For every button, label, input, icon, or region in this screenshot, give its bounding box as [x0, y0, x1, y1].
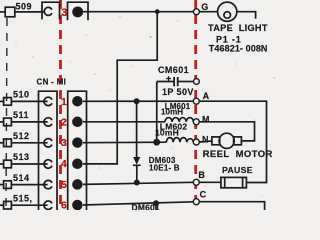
wire row 509 to node G [82, 11, 193, 13]
branch vertical with diode DM603 [136, 101, 138, 157]
node C [193, 199, 199, 205]
terminal square 515 [0, 204, 4, 206]
connector CN-M1 female box (long) [39, 91, 58, 210]
wire 509 square to connector [15, 11, 44, 13]
svg-text:3: 3 [61, 7, 67, 19]
svg-text:512: 512 [13, 131, 30, 141]
svg-text:CM601: CM601 [158, 65, 189, 75]
node B [193, 179, 199, 185]
node A [193, 98, 199, 104]
inductor LM601 coil [165, 118, 193, 122]
junction A row [134, 98, 140, 104]
red dashed boundary line 1 (x=60) [59, 0, 62, 210]
pause switch body [221, 177, 247, 187]
wire pin6 to node C [83, 202, 193, 205]
svg-text:1P 50V: 1P 50V [162, 87, 194, 97]
svg-text:REEL MOTOR: REEL MOTOR [203, 149, 273, 160]
diode DM603 [133, 157, 140, 165]
svg-text:10E1- B: 10E1- B [149, 163, 180, 172]
capacitor CM601 plates [173, 77, 175, 86]
junction N row [153, 139, 160, 146]
connector box (male half) row 509 [68, 2, 89, 20]
node M [193, 119, 199, 125]
svg-text:C: C [200, 190, 207, 200]
reel motor left terminal [212, 137, 220, 145]
reel motor body [219, 133, 234, 148]
junction C row [153, 200, 159, 206]
capacitor branch vertical [156, 82, 158, 143]
svg-text:509: 509 [16, 2, 33, 12]
male pin dots 1-6 [73, 97, 82, 106]
svg-text:514: 514 [13, 173, 30, 183]
svg-text:3: 3 [61, 137, 67, 149]
node N [193, 139, 199, 145]
svg-text:+: + [166, 74, 172, 85]
svg-text:B: B [198, 170, 205, 180]
reel motor right terminal [234, 137, 242, 145]
terminal square 511 [0, 121, 4, 123]
svg-text:A: A [203, 91, 210, 101]
svg-text:CN - MI: CN - MI [37, 78, 67, 87]
node cap (unlabeled) [194, 79, 200, 85]
svg-text:4: 4 [61, 158, 67, 170]
node G to lamp wire [199, 11, 217, 13]
paper background [0, 0, 280, 210]
svg-text:6: 6 [61, 199, 67, 210]
svg-text:M: M [202, 114, 210, 124]
svg-text:PAUSE: PAUSE [222, 165, 253, 175]
capacitor CM601 wiring [157, 81, 174, 83]
svg-text:DM601: DM601 [132, 203, 160, 211]
inductor LM602 coil [166, 138, 193, 143]
svg-text:510: 510 [13, 90, 30, 100]
terminal square 510 [0, 100, 4, 102]
junction B row [134, 180, 140, 186]
svg-text:515,: 515, [13, 194, 33, 204]
wire node C right, exits bottom [199, 202, 264, 210]
connector box (female half) row 509 [42, 2, 60, 19]
wire pin1 to node A [83, 100, 193, 102]
wire node A right loop to pause [199, 101, 266, 182]
female pin symbols 510-515 [44, 97, 52, 105]
wire pin3 to coil LM602 [83, 141, 166, 144]
DM601 stub below row C [155, 203, 157, 210]
terminal square 509 [5, 7, 15, 17]
wire pin2 to coil LM601 [83, 121, 165, 123]
male pin dot row 509 [73, 7, 82, 16]
svg-text:T46821- 008N: T46821- 008N [209, 43, 268, 53]
svg-text:TAPE LIGHT: TAPE LIGHT [208, 23, 268, 33]
svg-text:5: 5 [61, 179, 67, 191]
svg-text:N: N [202, 135, 209, 145]
tape light lamp P1-1 [218, 2, 237, 21]
lamp to right stub [237, 12, 256, 19]
wire pin4 up-branch [83, 12, 157, 164]
junction G row [155, 9, 160, 14]
svg-text:1: 1 [61, 96, 67, 108]
red dashed boundary line 2 (x=196) [194, 0, 197, 210]
chassis dashed line (left, black) [6, 18, 7, 208]
female pin symbol row 509 [44, 7, 52, 15]
svg-text:10mH: 10mH [161, 108, 183, 117]
terminal square 512 [0, 142, 4, 144]
wire node M to motor right [199, 122, 254, 141]
wire node B to pause switch [199, 181, 221, 183]
svg-text:10mH: 10mH [155, 128, 179, 138]
wire row 509 from edge [0, 11, 5, 13]
terminal square 513 [0, 163, 4, 165]
wire pin5 to node B [83, 182, 193, 184]
node G [193, 9, 199, 15]
connector CN-M1 male box (long) [68, 91, 87, 210]
svg-text:513: 513 [13, 152, 30, 162]
scan speckles [15, 16, 274, 196]
svg-text:G: G [201, 2, 208, 12]
wire node N to motor left [199, 141, 212, 142]
svg-text:2: 2 [61, 116, 67, 128]
terminal square 514 [0, 184, 4, 186]
svg-text:511: 511 [13, 110, 29, 120]
